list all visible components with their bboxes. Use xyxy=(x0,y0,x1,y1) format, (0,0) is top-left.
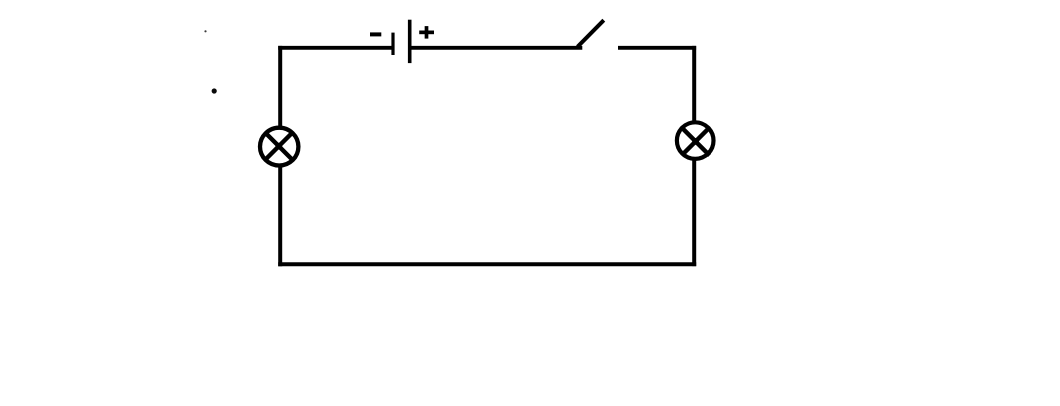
wire: top horizontal (switch contact to top-right corner) xyxy=(618,46,696,50)
stray dot (faint, upper left) xyxy=(204,30,206,32)
stray dot (dark blob, left) xyxy=(212,88,217,93)
switch S1 blade (open) xyxy=(578,20,604,47)
wire: top left horizontal (corner to battery negative plate) xyxy=(278,46,391,50)
wire: right vertical upper (corner to lamp L2) xyxy=(692,46,696,122)
lamp L2 circle (right) xyxy=(677,122,714,159)
battery B1 negative label "-" xyxy=(370,32,381,36)
wire: top horizontal (battery to switch) xyxy=(412,46,583,50)
wire: bottom horizontal xyxy=(278,262,696,266)
wire: left vertical upper (top-left corner to lamp L1) xyxy=(278,46,282,127)
wire: right vertical lower (lamp L2 to bottom-right corner) xyxy=(692,160,696,267)
wire: left vertical lower (lamp L1 to bottom-left corner) xyxy=(278,167,282,267)
lamp L1 circle (left) xyxy=(260,128,298,166)
battery B1 positive label "+" xyxy=(419,26,434,38)
battery B1 positive plate (long) xyxy=(408,20,412,63)
lamp L2 cross xyxy=(682,127,710,155)
battery B1 negative plate (short) xyxy=(391,33,394,55)
lamp L1 cross xyxy=(265,132,293,160)
